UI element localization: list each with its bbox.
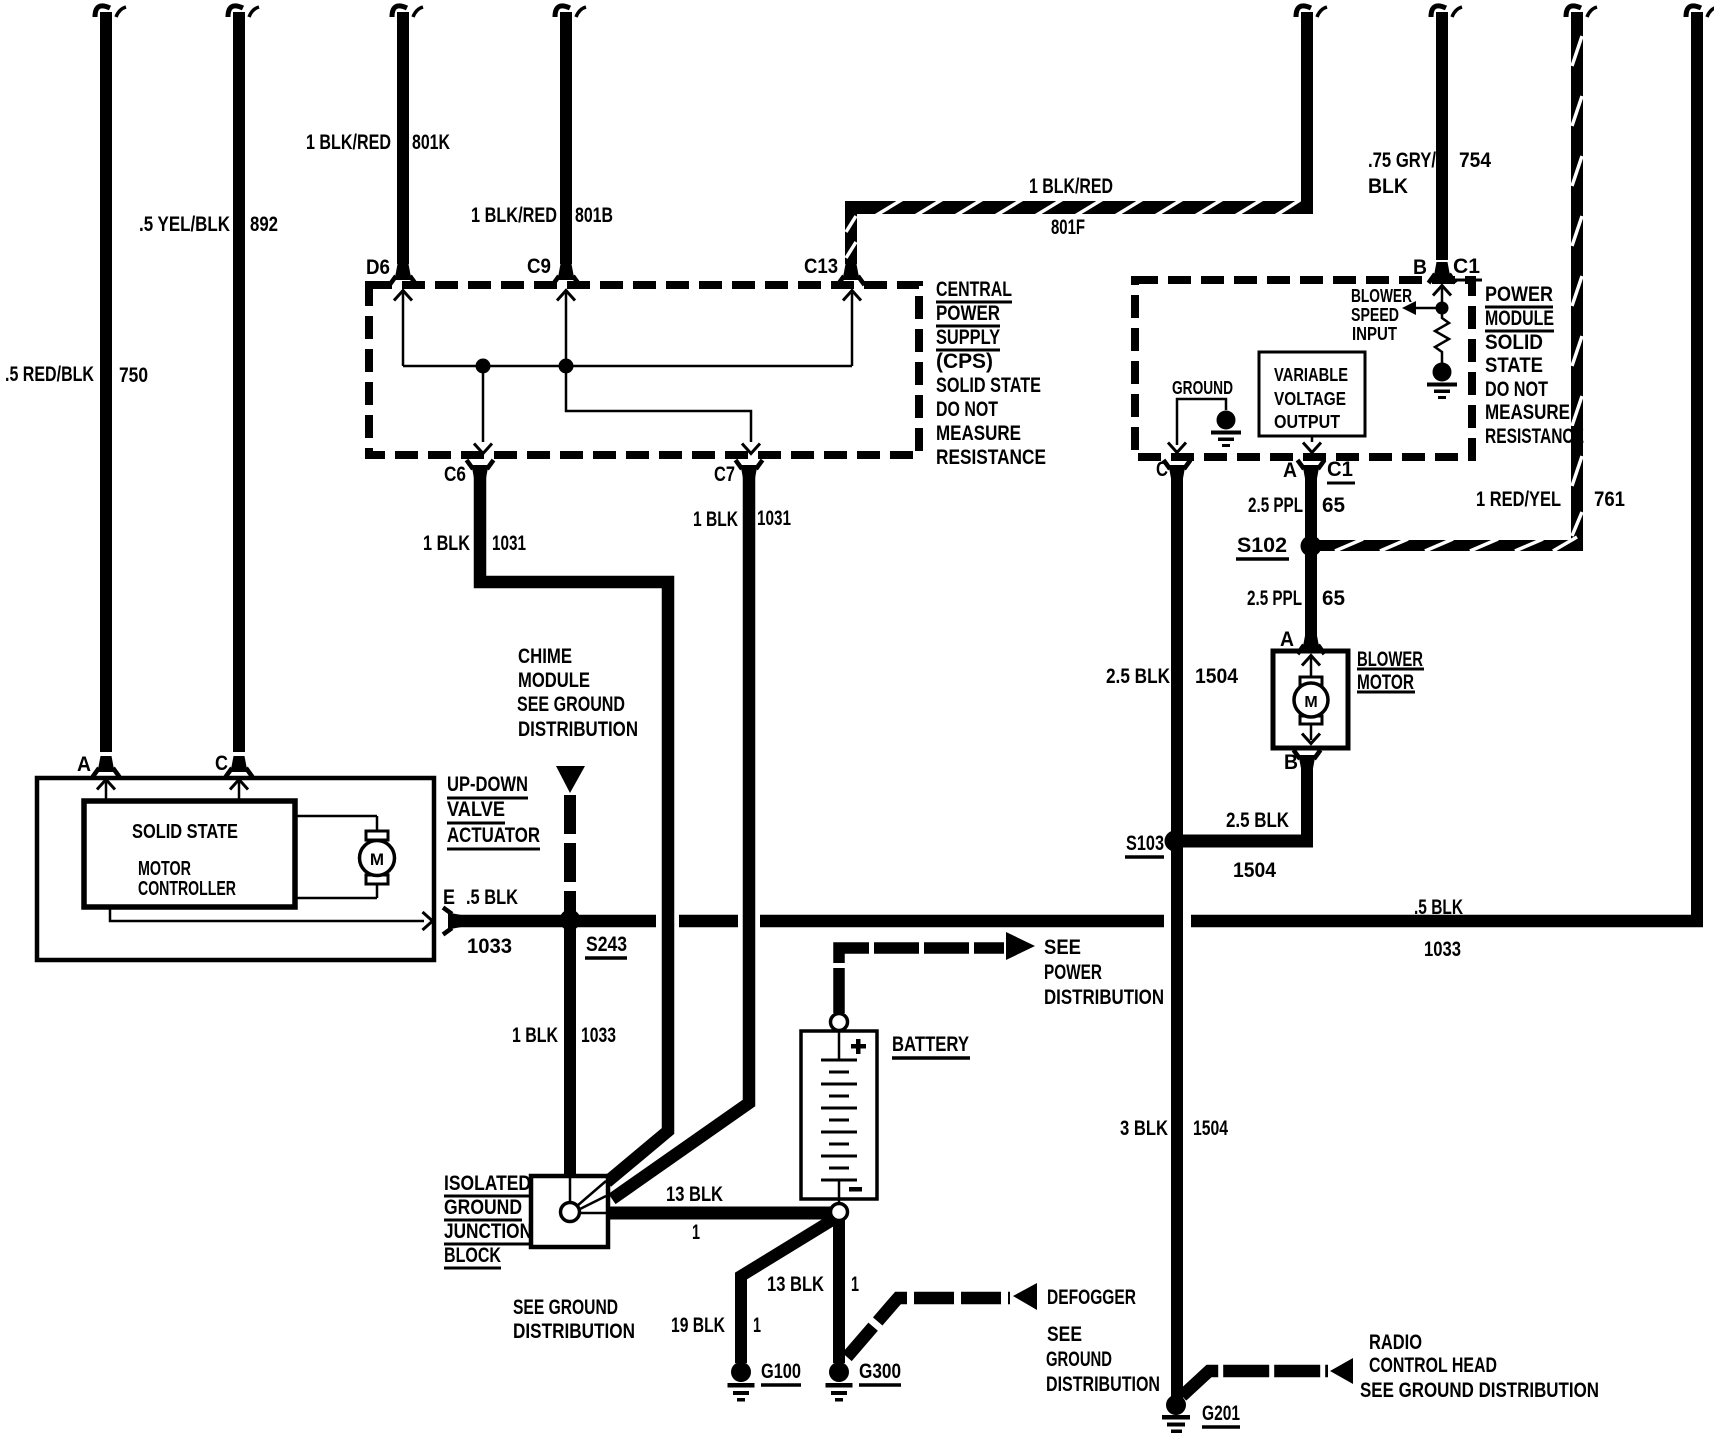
svg-text:RADIO: RADIO (1369, 1331, 1422, 1354)
chime dashed wire (564, 795, 576, 916)
svg-text:DEFOGGER: DEFOGGER (1047, 1286, 1136, 1309)
svg-text:2.5 PPL: 2.5 PPL (1248, 494, 1303, 517)
svg-text:RESISTANCE: RESISTANCE (1485, 425, 1584, 448)
label 2.5 BLK / 1504 (S103 link) (1226, 809, 1289, 882)
svg-text:MOTOR: MOTOR (138, 858, 191, 880)
E output line and exit arrow (110, 907, 433, 930)
svg-text:B: B (1413, 256, 1427, 279)
label 2.5 PPL 65 (upper) (1248, 494, 1345, 517)
svg-text:DISTRIBUTION: DISTRIBUTION (513, 1320, 635, 1343)
svg-text:MEASURE: MEASURE (936, 422, 1021, 445)
svg-text:SOLID STATE: SOLID STATE (936, 374, 1041, 397)
labels D6 C9 C13 (366, 255, 838, 279)
svg-text:VARIABLE: VARIABLE (1274, 365, 1348, 385)
CPS exit stub and arrow C6 (474, 366, 492, 454)
label ISOLATED GROUND JUNCTION BLOCK (444, 1172, 532, 1268)
svg-text:1031: 1031 (757, 507, 791, 530)
labels B C1 (top) (1413, 255, 1482, 280)
svg-text:2.5 PPL: 2.5 PPL (1247, 587, 1302, 610)
svg-text:SPEED: SPEED (1351, 305, 1399, 325)
CPS exit arrow C7 (742, 444, 760, 454)
svg-text:POWER: POWER (1044, 961, 1102, 984)
svg-text:SEE: SEE (1047, 1323, 1082, 1346)
svg-text:RESISTANCE: RESISTANCE (936, 446, 1046, 469)
svg-text:MEASURE: MEASURE (1485, 401, 1570, 424)
svg-text:CHIME: CHIME (518, 645, 572, 668)
label E .5 BLK 1033 (left) (443, 886, 518, 958)
svg-text:DISTRIBUTION: DISTRIBUTION (1046, 1373, 1160, 1396)
svg-text:DISTRIBUTION: DISTRIBUTION (518, 718, 638, 741)
junction block stud (561, 1178, 607, 1222)
svg-text:1 BLK: 1 BLK (693, 508, 738, 531)
label 13 BLK 1 (666, 1183, 723, 1244)
svg-text:C: C (215, 752, 228, 775)
svg-text:801B: 801B (575, 204, 613, 227)
svg-text:CENTRAL: CENTRAL (936, 278, 1012, 301)
valve motor M (295, 816, 395, 898)
power distribution triangle (1006, 932, 1035, 960)
label SEE GROUND DISTRIBUTION (block) (513, 1296, 635, 1343)
svg-text:65: 65 (1322, 587, 1345, 610)
svg-text:BLOCK: BLOCK (444, 1244, 501, 1267)
svg-text:1 BLK/RED: 1 BLK/RED (1029, 175, 1113, 198)
svg-text:STATE: STATE (1485, 354, 1543, 377)
svg-text:2.5 BLK: 2.5 BLK (1226, 809, 1289, 832)
svg-text:POWER: POWER (1485, 283, 1553, 306)
CPS internal bus (403, 365, 852, 368)
svg-text:BLK: BLK (1368, 175, 1408, 198)
svg-text:OUTPUT: OUTPUT (1274, 412, 1340, 432)
svg-text:M: M (370, 850, 384, 869)
svg-text:SEE: SEE (1044, 936, 1081, 959)
svg-text:POWER: POWER (936, 302, 1000, 325)
connector foot C7 (736, 460, 763, 481)
label 13 BLK 1 (G300 wire) (767, 1273, 859, 1296)
svg-text:G100: G100 (761, 1360, 801, 1383)
wire 801F (1 BLK/RED, hatched) (845, 6, 1327, 264)
CPS entry arrow C9 + internal path to C7 (557, 291, 751, 443)
label .75 GRY/BLK 754 (1368, 149, 1491, 198)
svg-text:G201: G201 (1202, 1402, 1240, 1425)
labels C / A C1 below PM (1156, 458, 1355, 483)
label 1 BLK 1033 (512, 1024, 616, 1047)
redraw hatched 761 wire over RESISTANCE text (1571, 426, 1583, 447)
svg-text:1033: 1033 (467, 935, 512, 958)
wire 892 (.5 YEL/BLK) (228, 6, 259, 752)
svg-text:13 BLK: 13 BLK (767, 1273, 824, 1296)
svg-text:BLOWER: BLOWER (1351, 286, 1412, 306)
svg-text:DISTRIBUTION: DISTRIBUTION (1044, 986, 1164, 1009)
label RADIO CONTROL HEAD SEE GROUND DISTRIBUTION (1360, 1331, 1599, 1402)
svg-text:SOLID STATE: SOLID STATE (132, 821, 238, 843)
label 2.5 BLK 1504 (1106, 665, 1238, 688)
junction dot (476, 359, 491, 374)
wire 13 BLK 1 (battery to G300) (833, 1220, 845, 1363)
label 1 BLK/RED 801B (471, 204, 613, 227)
svg-text:1033: 1033 (1424, 938, 1461, 961)
connector foot A C1 (PM) (1298, 460, 1325, 481)
battery top terminal (831, 1014, 848, 1031)
connector foot C (motor controller) (226, 756, 253, 777)
svg-text:3 BLK: 3 BLK (1120, 1117, 1168, 1140)
svg-text:ISOLATED: ISOLATED (444, 1172, 531, 1195)
svg-text:D6: D6 (366, 256, 390, 279)
PM exit arrow A (1303, 436, 1321, 453)
outer actuator box (37, 778, 434, 960)
wire 761 (1 RED/YEL, hatched) (1316, 6, 1597, 551)
radio continuation triangle (1330, 1358, 1353, 1384)
wire 2.5 BLK / 3 BLK 1504 (1171, 465, 1183, 1399)
label S243 (585, 933, 627, 958)
wire 1031 from C7 (612, 465, 749, 1199)
hatch slashes on 761 (1335, 36, 1582, 551)
label SOLID STATE MOTOR CONTROLLER (132, 821, 238, 900)
svg-text:GROUND: GROUND (1172, 378, 1233, 398)
label CHIME MODULE SEE GROUND DISTRIBUTION (517, 645, 638, 741)
svg-text:.5 BLK: .5 BLK (466, 886, 518, 909)
svg-text:C9: C9 (527, 255, 551, 278)
wire .5 BLK 1033 segments (448, 915, 1703, 928)
connector foot C6 (467, 460, 494, 481)
label BLOWER MOTOR (1357, 648, 1424, 694)
svg-text:801K: 801K (412, 131, 450, 154)
svg-text:CONTROLLER: CONTROLLER (138, 878, 236, 900)
svg-text:DO NOT: DO NOT (1485, 378, 1548, 401)
wire 65 (2.5 PPL) (1305, 465, 1317, 637)
svg-text:C1: C1 (1327, 458, 1353, 481)
svg-text:GROUND: GROUND (1046, 1348, 1112, 1371)
module ground (right) (1427, 363, 1457, 400)
svg-text:MODULE: MODULE (1485, 307, 1554, 330)
connector foot B C1 (power module) (1429, 262, 1456, 283)
svg-text:1: 1 (753, 1314, 761, 1337)
dashed wire to power distribution (839, 948, 1004, 1013)
connector foot D6 (390, 264, 417, 285)
connector foot C (PM) (1164, 460, 1191, 481)
blower speed input arrow (1402, 301, 1438, 315)
svg-text:JUNCTION: JUNCTION (444, 1220, 532, 1243)
defogger dashed wire (847, 1298, 1010, 1357)
label .5 YEL/BLK 892 (139, 213, 278, 236)
svg-text:MODULE: MODULE (518, 669, 590, 692)
wire 754 (.75 GRY/BLK) (1431, 6, 1462, 260)
label 2.5 PPL 65 (lower) (1247, 587, 1345, 610)
svg-text:750: 750 (119, 364, 148, 387)
svg-text:SEE GROUND: SEE GROUND (517, 693, 625, 716)
svg-text:C1: C1 (1453, 255, 1480, 278)
CPS entry arrow C13 (843, 291, 861, 367)
svg-text:BATTERY: BATTERY (892, 1033, 969, 1056)
svg-text:801F: 801F (1051, 216, 1085, 239)
svg-text:C13: C13 (804, 255, 838, 278)
svg-text:M: M (1304, 694, 1317, 711)
svg-text:.75 GRY/: .75 GRY/ (1368, 149, 1436, 172)
label SEE POWER DISTRIBUTION (1044, 936, 1164, 1009)
PM dashed box (1135, 280, 1472, 457)
junction S243 (560, 910, 581, 931)
connector foot A (blower) (1298, 633, 1325, 654)
svg-text:1: 1 (851, 1273, 859, 1296)
connector foot C13 (838, 264, 865, 285)
ground G100 (728, 1362, 755, 1402)
CPS entry arrow D6 (394, 291, 412, 367)
svg-text:GROUND: GROUND (444, 1196, 522, 1219)
svg-text:UP-DOWN: UP-DOWN (447, 773, 528, 796)
svg-text:13 BLK: 13 BLK (666, 1183, 723, 1206)
connector foot B (blower) (1294, 750, 1321, 771)
svg-text:.5 RED/BLK: .5 RED/BLK (5, 363, 94, 386)
PM side label POWER MODULE ... (1485, 283, 1584, 448)
label 3 BLK 1504 (1120, 1117, 1228, 1140)
wire 1504 S103 link (1177, 835, 1313, 848)
label UP-DOWN VALVE ACTUATOR (447, 773, 540, 849)
svg-text:SEE GROUND DISTRIBUTION: SEE GROUND DISTRIBUTION (1360, 1379, 1599, 1402)
wire 2.5 BLK blower B (1301, 755, 1313, 847)
variable voltage output box (1259, 352, 1365, 436)
battery bottom terminal (831, 1204, 848, 1221)
svg-text:754: 754 (1459, 149, 1491, 172)
label 1 RED/YEL 761 (1476, 488, 1625, 511)
svg-text:(CPS): (CPS) (936, 350, 993, 373)
splice S102 (1301, 536, 1322, 557)
connector foot A (motor controller) (93, 756, 120, 777)
wire 750 (.5 RED/BLK) (95, 6, 126, 752)
wire 801B (1 BLK/RED) (555, 6, 586, 264)
blower motor box (1273, 651, 1348, 748)
blower entry arrow (1302, 656, 1320, 680)
label .5 BLK 1033 (right) (1414, 896, 1463, 961)
label G300 (859, 1360, 901, 1385)
label 1 BLK/RED 801F (1029, 175, 1113, 239)
connector foot E (443, 908, 464, 935)
svg-text:2.5 BLK: 2.5 BLK (1106, 665, 1170, 688)
svg-text:1 BLK/RED: 1 BLK/RED (471, 204, 557, 227)
svg-text:1504: 1504 (1195, 665, 1238, 688)
CPS label text (936, 278, 1046, 469)
svg-text:C7: C7 (714, 463, 735, 486)
ground G300 (826, 1362, 853, 1402)
svg-text:E: E (443, 886, 455, 909)
svg-text:1033: 1033 (581, 1024, 616, 1047)
junction block box (531, 1176, 608, 1247)
battery plus sign (851, 1039, 866, 1054)
svg-text:A: A (1280, 628, 1294, 651)
label VARIABLE VOLTAGE OUTPUT (1274, 365, 1348, 432)
svg-text:SOLID: SOLID (1485, 331, 1543, 354)
svg-text:ACTUATOR: ACTUATOR (447, 824, 540, 847)
radio control head dashed wire (1182, 1371, 1328, 1396)
blower exit arrow (1302, 724, 1320, 744)
label BATTERY (892, 1033, 970, 1058)
wire 801K (1 BLK/RED) (392, 6, 423, 264)
svg-text:1 BLK/RED: 1 BLK/RED (306, 131, 391, 154)
label .5 RED/BLK 750 (5, 363, 148, 387)
wire 19 BLK 1 (battery to G100) (741, 1219, 834, 1363)
label BLOWER SPEED INPUT (1351, 286, 1412, 344)
svg-text:SEE GROUND: SEE GROUND (513, 1296, 618, 1319)
battery box (801, 1031, 877, 1199)
label S102 (1236, 534, 1289, 559)
svg-text:C6: C6 (444, 463, 466, 486)
svg-text:S102: S102 (1237, 534, 1287, 557)
blower motor M (1294, 677, 1328, 724)
svg-text:1 RED/YEL: 1 RED/YEL (1476, 488, 1561, 511)
svg-text:1 BLK: 1 BLK (512, 1024, 558, 1047)
module ground (left) (1211, 411, 1241, 448)
inner controller box (84, 801, 295, 907)
label S103 (1125, 832, 1164, 857)
svg-text:INPUT: INPUT (1352, 324, 1397, 344)
svg-text:S243: S243 (586, 933, 627, 956)
svg-text:G300: G300 (859, 1360, 901, 1383)
label SEE GROUND DISTRIBUTION (defogger) (1046, 1323, 1160, 1396)
PM entry arrow B (1433, 286, 1451, 303)
chime continuation triangle (556, 766, 585, 793)
svg-text:VALVE: VALVE (447, 798, 505, 821)
svg-text:SUPPLY: SUPPLY (936, 326, 1000, 349)
label G100 (761, 1360, 801, 1385)
defogger continuation triangle (1013, 1283, 1037, 1310)
svg-text:65: 65 (1322, 494, 1345, 517)
svg-text:VOLTAGE: VOLTAGE (1274, 389, 1346, 409)
svg-text:1504: 1504 (1233, 859, 1276, 882)
svg-text:.5 BLK: .5 BLK (1414, 896, 1463, 919)
wire 1031 from C6 (480, 465, 668, 1182)
label G201 (1202, 1402, 1240, 1427)
svg-text:.5 YEL/BLK: .5 YEL/BLK (139, 213, 230, 236)
battery minus sign (849, 1187, 862, 1192)
svg-text:S103: S103 (1126, 832, 1164, 855)
svg-text:DO NOT: DO NOT (936, 398, 998, 421)
svg-text:761: 761 (1594, 488, 1625, 511)
svg-text:A: A (1283, 459, 1297, 482)
svg-text:19 BLK: 19 BLK (671, 1314, 725, 1337)
ground G201 (1162, 1395, 1190, 1433)
svg-text:1504: 1504 (1193, 1117, 1228, 1140)
node dot (1436, 302, 1449, 315)
svg-text:B: B (1284, 751, 1298, 774)
labels A C (box terminals) (77, 752, 228, 776)
wire 13 BLK 1 (block to battery) (608, 1207, 831, 1220)
PM exit arrow C (1168, 443, 1186, 453)
wire 1033 right riser (1686, 6, 1714, 926)
labels C6 C7 (444, 463, 735, 486)
resistor R (blower speed) (1435, 308, 1449, 363)
CPS dashed box (369, 285, 919, 455)
svg-text:892: 892 (250, 213, 278, 236)
svg-text:1: 1 (692, 1221, 700, 1244)
connector foot C9 (553, 264, 580, 285)
battery plates (821, 1031, 857, 1203)
hatch slashes on 801F (846, 199, 1300, 258)
svg-text:CONTROL HEAD: CONTROL HEAD (1369, 1354, 1497, 1377)
entry arrow A (97, 780, 115, 802)
splice S103 (1165, 831, 1186, 852)
label 1 BLK/RED 801K (306, 131, 450, 154)
wire 1033 chime to junction block (564, 926, 576, 1176)
ground bracket wiring (1177, 399, 1226, 445)
label 1 BLK 1031 (C6) (423, 532, 526, 555)
label 19 BLK 1 (671, 1314, 761, 1337)
entry arrow C (230, 780, 248, 802)
label 1 BLK 1031 (C7) (693, 507, 791, 531)
svg-text:1 BLK: 1 BLK (423, 532, 470, 555)
svg-text:1031: 1031 (492, 532, 526, 555)
junction dot (559, 359, 574, 374)
svg-text:A: A (77, 753, 91, 776)
